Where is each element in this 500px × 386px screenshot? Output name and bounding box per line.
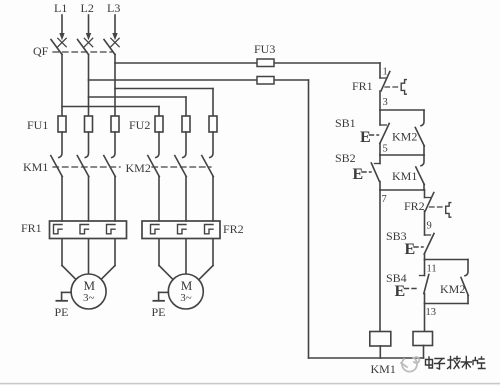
pushbutton SB3 label bbox=[386, 229, 407, 243]
thermal relay FR2 label bbox=[223, 222, 244, 236]
fuse FU1 pole 3 bbox=[111, 116, 119, 132]
contactor KM1 label bbox=[23, 160, 48, 174]
node 3 bbox=[383, 97, 388, 108]
wire L2 tap to FU2 pole2 bbox=[89, 97, 187, 116]
svg-text:FU2: FU2 bbox=[129, 118, 150, 132]
thermal relay FR1 box bbox=[50, 221, 127, 239]
wire node 13 to coil KM2 bbox=[424, 304, 426, 332]
contactor KM2 aux contact (11-13) bbox=[461, 260, 468, 304]
breaker QF pole 2 bbox=[78, 38, 93, 54]
thermal relay FR2 element 3 bbox=[205, 225, 214, 234]
svg-text:SB2: SB2 bbox=[335, 151, 356, 165]
node 5 bbox=[383, 144, 388, 155]
fuse FU2 pole 1 bbox=[155, 116, 163, 132]
fuse FU2 label bbox=[129, 118, 150, 132]
svg-text:KM1: KM1 bbox=[392, 169, 417, 183]
svg-text:FR2: FR2 bbox=[223, 222, 244, 236]
svg-text:13: 13 bbox=[426, 307, 437, 318]
wire node 13 junction bbox=[425, 303, 469, 305]
bottom border line bbox=[0, 383, 500, 385]
node L1 bbox=[54, 1, 67, 15]
wire FU1-2 to KM1-2 bbox=[85, 132, 88, 158]
thermal relay FR1 contact label bbox=[352, 79, 373, 93]
pushbutton SB4 bbox=[420, 260, 429, 304]
node L2 bbox=[81, 1, 94, 15]
fuse FU2 pole 2 bbox=[182, 116, 190, 132]
thermal relay FR1 trip linkage dashed bbox=[385, 86, 399, 88]
svg-text:FR2: FR2 bbox=[404, 199, 425, 213]
svg-text:FR1: FR1 bbox=[352, 79, 373, 93]
svg-text:E: E bbox=[360, 129, 371, 146]
wire node 7 junction bbox=[380, 189, 425, 191]
wire FR2 to motor M2 leads bbox=[159, 239, 213, 280]
contactor KM2 linkage dashed bbox=[152, 166, 211, 168]
coil KM2 bbox=[413, 332, 433, 359]
thermal relay FR2 contact label bbox=[404, 199, 425, 213]
contactor KM2 aux contact (3-5) bbox=[415, 110, 424, 155]
wire L3 tap to FU3 and control rail bbox=[115, 62, 380, 64]
pushbutton SB3 bbox=[424, 234, 434, 260]
svg-text:KM2: KM2 bbox=[126, 161, 151, 175]
svg-text:3~: 3~ bbox=[83, 292, 95, 304]
wire left branch to coil KM1 bbox=[379, 190, 381, 332]
thermal relay FR2 box bbox=[142, 221, 220, 239]
pushbutton SB1 bbox=[380, 110, 389, 155]
svg-text:L1: L1 bbox=[54, 1, 67, 15]
breaker QF label bbox=[33, 44, 49, 58]
svg-text:E: E bbox=[395, 283, 406, 300]
thermal relay FR1 trip symbol bbox=[401, 80, 406, 95]
svg-text:KM2: KM2 bbox=[392, 130, 417, 144]
ground PE motor M1 bbox=[55, 292, 72, 319]
wire L1 vertical to FU1 bbox=[61, 55, 63, 117]
thermal relay FR1 NC contact bbox=[380, 72, 390, 111]
thermal relay FR1 element 3 bbox=[107, 225, 116, 234]
thermal relay FR2 trip linkage dashed bbox=[430, 206, 444, 208]
wire L1 tap to FU2 pole1 bbox=[62, 107, 159, 117]
node L3 bbox=[107, 1, 120, 15]
pushbutton SB1 actuator E bbox=[360, 129, 379, 146]
coil KM1 bbox=[370, 332, 391, 359]
svg-text:9: 9 bbox=[427, 221, 432, 232]
breaker QF pole 1 bbox=[51, 38, 66, 54]
fuse FU3 pole 1 bbox=[257, 59, 274, 67]
wire L2 vertical to FU1 bbox=[88, 55, 90, 117]
wire L3 incoming arrow bbox=[112, 15, 117, 40]
svg-text:KM1: KM1 bbox=[23, 160, 48, 174]
wire node 3 branch bbox=[380, 109, 424, 111]
fuse FU2 pole 3 bbox=[209, 116, 217, 132]
pushbutton SB3 actuator E bbox=[405, 241, 424, 258]
svg-text:PE: PE bbox=[152, 305, 166, 319]
svg-text:KM1: KM1 bbox=[371, 362, 396, 376]
wire L2 tap to FU3 and control return bbox=[89, 79, 309, 81]
svg-text:FR1: FR1 bbox=[21, 221, 42, 235]
watermark text 电子技术控 bbox=[426, 357, 486, 370]
thermal relay FR1 element 2 bbox=[80, 225, 89, 234]
svg-text:3: 3 bbox=[383, 97, 388, 108]
watermark logo bbox=[401, 357, 419, 372]
svg-text:FU3: FU3 bbox=[254, 42, 275, 56]
pushbutton SB4 actuator E bbox=[395, 283, 417, 300]
contactor KM2 main contact 2 bbox=[175, 156, 187, 221]
wire control left return rail bbox=[309, 80, 424, 358]
thermal relay FR2 element 2 bbox=[178, 225, 187, 234]
fuse FU3 pole 2 bbox=[257, 77, 274, 85]
node 11 bbox=[427, 264, 437, 275]
svg-text:SB1: SB1 bbox=[335, 116, 356, 130]
contactor KM1 linkage dashed bbox=[53, 166, 120, 168]
svg-text:KM2: KM2 bbox=[440, 282, 465, 296]
svg-text:E: E bbox=[405, 241, 416, 258]
contactor KM1 main contact 2 bbox=[77, 156, 89, 221]
wire L3 vertical to FU1 bbox=[114, 55, 116, 117]
svg-text:QF: QF bbox=[33, 44, 49, 58]
breaker QF linkage dashed bbox=[53, 51, 112, 53]
fuse FU1 label bbox=[27, 118, 48, 132]
node 13 bbox=[426, 307, 437, 318]
wire L2 incoming arrow bbox=[86, 15, 91, 40]
svg-text:M: M bbox=[84, 278, 96, 293]
thermal relay FR2 NC contact bbox=[425, 190, 434, 235]
svg-text:E: E bbox=[353, 166, 364, 183]
svg-text:L2: L2 bbox=[81, 1, 94, 15]
motor M1 bbox=[71, 274, 106, 309]
coil KM1 label bbox=[371, 362, 396, 376]
contactor KM1 aux contact (5-7) bbox=[416, 155, 425, 190]
wire node 5 junction bbox=[380, 154, 424, 156]
wire FU2-3 to KM2-3 bbox=[210, 132, 213, 158]
svg-text:11: 11 bbox=[427, 264, 437, 275]
node 9 bbox=[427, 221, 432, 232]
contactor KM2 label bbox=[126, 161, 151, 175]
pushbutton SB2 bbox=[371, 155, 380, 190]
pushbutton SB2 actuator E bbox=[353, 166, 372, 183]
wire FU1-1 to KM1-1 bbox=[59, 132, 62, 158]
svg-text:3~: 3~ bbox=[180, 292, 192, 304]
node 7 bbox=[382, 194, 387, 205]
fuse FU3 label bbox=[254, 42, 275, 56]
thermal relay FR1 element 1 bbox=[54, 225, 63, 234]
svg-text:FU1: FU1 bbox=[27, 118, 48, 132]
pushbutton SB1 label bbox=[335, 116, 356, 130]
fuse FU1 pole 2 bbox=[85, 116, 93, 132]
pushbutton SB2 label bbox=[335, 151, 356, 165]
pushbutton SB4 label bbox=[386, 271, 407, 285]
contactor KM1 main contact 1 bbox=[51, 156, 63, 221]
thermal relay FR2 trip symbol bbox=[446, 203, 451, 218]
breaker QF pole 3 bbox=[104, 38, 119, 54]
fuse FU1 pole 1 bbox=[58, 116, 66, 132]
wire node 11 junction bbox=[425, 259, 469, 261]
wire L3 tap to FU2 pole3 bbox=[115, 89, 213, 117]
svg-text:M: M bbox=[181, 278, 193, 293]
svg-text:7: 7 bbox=[382, 194, 387, 205]
node 1 bbox=[383, 67, 388, 78]
contactor KM2 aux label bbox=[392, 130, 417, 144]
wire control supply drop node 1 bbox=[379, 63, 381, 78]
svg-text:L3: L3 bbox=[107, 1, 120, 15]
wire L1 incoming arrow bbox=[59, 15, 64, 40]
wire FU1-3 to KM1-3 bbox=[112, 132, 115, 158]
wire FR1 to motor M1 leads bbox=[62, 239, 115, 280]
contactor KM1 main contact 3 bbox=[104, 156, 116, 221]
wire FU2-2 to KM2-2 bbox=[183, 132, 186, 158]
contactor KM2 main contact 1 bbox=[148, 156, 160, 221]
contactor KM2 aux label (11-13) bbox=[440, 282, 465, 296]
svg-text:5: 5 bbox=[383, 144, 388, 155]
ground PE motor M2 bbox=[152, 292, 169, 319]
wire FU2-1 to KM2-1 bbox=[156, 132, 159, 158]
contactor KM1 aux label bbox=[392, 169, 417, 183]
thermal relay FR2 element 1 bbox=[151, 225, 160, 234]
contactor KM2 main contact 3 bbox=[202, 156, 214, 221]
thermal relay FR1 label bbox=[21, 221, 42, 235]
motor M2 bbox=[168, 274, 203, 309]
svg-text:PE: PE bbox=[55, 305, 69, 319]
